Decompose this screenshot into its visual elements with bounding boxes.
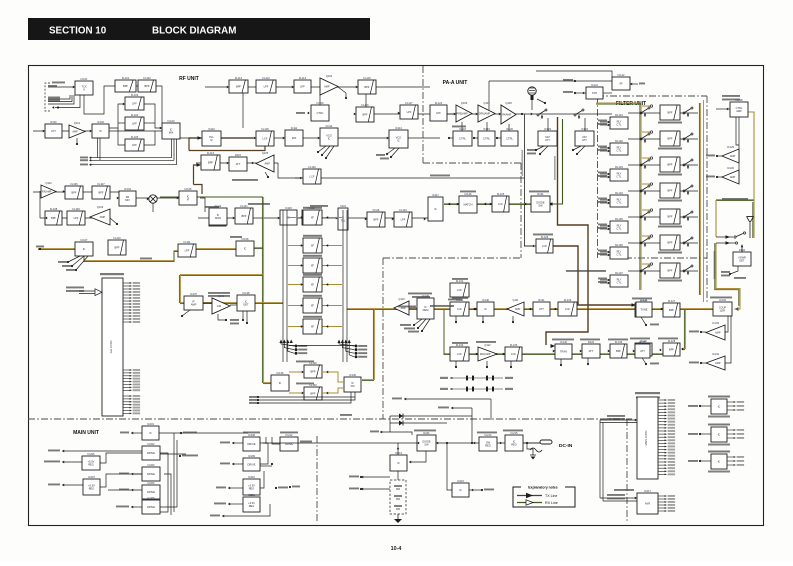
ific lbl2 bbox=[230, 323, 239, 325]
battery gnd bbox=[394, 514, 402, 523]
svg-text:BPF: BPF bbox=[364, 85, 369, 89]
RX vertical rail x263 bbox=[261, 197, 263, 383]
wire y138 row bbox=[180, 137, 440, 139]
battery feed bbox=[397, 471, 399, 480]
option in lbl 2 bbox=[688, 433, 698, 435]
filter row switch left 3 bbox=[640, 159, 650, 169]
svg-text:LPF: LPF bbox=[185, 249, 190, 253]
filter row stub left 1 bbox=[642, 105, 650, 107]
wire pa vert 489 bbox=[488, 81, 490, 110]
wire pa ctrl risers 2 bbox=[486, 122, 488, 131]
wire pa ctrl risers bbox=[461, 122, 463, 131]
option in lbl 1 bbox=[688, 405, 698, 407]
xtal label 5 bbox=[303, 295, 322, 297]
std arrow bbox=[582, 92, 584, 95]
filter bpf label 5 bbox=[658, 226, 682, 228]
svg-text:IC136: IC136 bbox=[349, 373, 356, 377]
pa bias2 bbox=[473, 137, 475, 139]
mrw3 bbox=[228, 487, 243, 489]
wire label mid bbox=[140, 258, 152, 260]
legend rx arrow bbox=[526, 500, 533, 505]
svg-text:IC104: IC104 bbox=[124, 187, 131, 191]
rxdet w2 bbox=[701, 362, 706, 364]
fan lbl2 bbox=[62, 265, 71, 267]
filter bpf 2 bbox=[660, 131, 680, 146]
wire ref line 3 bbox=[48, 95, 72, 102]
fan lbl1 bbox=[58, 261, 67, 263]
b8 lbl bbox=[292, 486, 300, 488]
att row lbl bbox=[630, 338, 650, 340]
filter relay arrow 3 bbox=[608, 173, 610, 176]
control wires down2 bbox=[738, 117, 740, 176]
vcofan dot2 bbox=[321, 154, 323, 156]
if link 4 bbox=[322, 388, 344, 393]
svg-text:R110: R110 bbox=[50, 120, 57, 124]
svg-text:LCF: LCF bbox=[542, 244, 547, 248]
center arrow5 bbox=[398, 112, 400, 115]
pwr small ic bbox=[452, 479, 469, 497]
battery dashed box bbox=[390, 480, 406, 514]
xtal stub right 1 bbox=[322, 217, 342, 219]
TX brown arrow into TUNE bbox=[632, 303, 637, 307]
tx505 dot bbox=[510, 366, 512, 368]
main vert 174 bbox=[173, 433, 175, 512]
label REF_IN bbox=[48, 85, 57, 87]
bus left vertical 1 bbox=[97, 138, 99, 158]
main drive4 bbox=[142, 496, 160, 514]
second ic x236 bbox=[236, 237, 254, 256]
if label2 bbox=[296, 383, 314, 385]
pachain lbl2 bbox=[529, 191, 549, 193]
wire lpf stack feed 3 bbox=[118, 128, 125, 145]
rx att 533 bbox=[533, 298, 550, 316]
highway lbl3 bbox=[607, 494, 625, 496]
svg-text:IC135: IC135 bbox=[277, 371, 284, 375]
svg-text:FL125: FL125 bbox=[497, 192, 505, 196]
filter row wire 5 bbox=[628, 216, 698, 218]
vswr fan lbl2 bbox=[721, 275, 730, 277]
dc dot bbox=[526, 442, 528, 444]
filter relay ctrl 4 bbox=[610, 191, 628, 207]
ref arrow bbox=[73, 86, 75, 89]
switchrow arrow bbox=[531, 113, 533, 116]
rx chain lbl2 bbox=[452, 297, 468, 299]
tx478 stub bbox=[486, 361, 488, 367]
vat fan2 bbox=[540, 146, 548, 154]
J2 vert pair1 bbox=[599, 420, 601, 498]
svg-text:MIX: MIX bbox=[292, 136, 297, 140]
chain arrow 2 bbox=[90, 130, 92, 133]
pachain lbl bbox=[460, 191, 476, 193]
J2 vert pair2 bbox=[602, 423, 604, 502]
m5w bbox=[131, 473, 142, 475]
tx bpf FL21 bbox=[235, 204, 253, 224]
svg-text:IC115: IC115 bbox=[285, 206, 292, 210]
ific fans bbox=[242, 311, 244, 320]
main drive1 bbox=[142, 442, 160, 460]
vco2 fan lbl2 bbox=[380, 158, 389, 160]
ic fan 1 bbox=[68, 256, 80, 262]
main in wire bbox=[131, 432, 142, 434]
svg-text:REG: REG bbox=[249, 487, 255, 491]
main lft arr7 bbox=[131, 506, 133, 509]
rxc arrow2 bbox=[529, 308, 531, 311]
svg-text:Q107: Q107 bbox=[483, 101, 490, 105]
y419 lbl bbox=[340, 414, 352, 416]
RF/PA boundary vertical bbox=[422, 66, 424, 163]
xtal filter 6 bbox=[303, 319, 322, 334]
svg-text:FL102: FL102 bbox=[143, 76, 151, 80]
option label smudge 1 bbox=[708, 416, 730, 418]
pwr arrow2 bbox=[473, 442, 475, 445]
pll IC6 bbox=[209, 208, 226, 226]
svg-text:FL105: FL105 bbox=[131, 135, 139, 139]
bpf FL2 bbox=[138, 76, 156, 92]
dc gnd wire bbox=[527, 443, 533, 455]
svg-text:MIX: MIX bbox=[169, 131, 174, 135]
filter bpf label 4 bbox=[658, 200, 682, 202]
xtal stub right 4 bbox=[322, 284, 342, 286]
xtal arrow right 2 bbox=[326, 244, 328, 247]
svg-text:SECTION 10: SECTION 10 bbox=[49, 26, 107, 37]
pa bias3 bbox=[496, 137, 498, 139]
filter row stub left 3 bbox=[642, 157, 650, 159]
svg-text:J+E CONN: J+E CONN bbox=[109, 340, 113, 353]
olive control link bbox=[748, 112, 754, 117]
svg-text:REG: REG bbox=[249, 504, 255, 508]
svg-text:IC141: IC141 bbox=[641, 298, 648, 302]
brown bpf feed arrow bbox=[197, 163, 202, 167]
svg-text:R123: R123 bbox=[639, 340, 646, 344]
control wires down bbox=[736, 117, 739, 145]
RX line to branch bbox=[254, 246, 263, 248]
svg-text:BPF: BPF bbox=[373, 218, 378, 222]
pwr left vert x390 bbox=[389, 416, 391, 432]
pwr arrow y408 bbox=[451, 407, 453, 410]
xtal pin bundle left bbox=[279, 340, 307, 355]
svg-text:IC107: IC107 bbox=[81, 238, 88, 242]
ifb dot1 bbox=[257, 396, 259, 398]
fan dot1 bbox=[67, 261, 69, 263]
svg-text:MOD: MOD bbox=[215, 216, 221, 220]
svg-text:LPF: LPF bbox=[264, 85, 269, 89]
svg-text:IC: IC bbox=[397, 139, 400, 143]
tx lcf 450 bbox=[450, 343, 469, 361]
filter unit right boundary bbox=[706, 96, 708, 302]
antenna symbol bbox=[747, 217, 754, 223]
main right bus2 bbox=[160, 453, 168, 512]
pwr ic link bbox=[397, 443, 399, 455]
tune bpf bbox=[663, 299, 680, 317]
mr top link bbox=[272, 437, 280, 444]
xtal label 1 bbox=[303, 207, 322, 209]
avr feed bbox=[600, 497, 637, 499]
main in arrow bbox=[131, 432, 133, 435]
filter row switch right 6 bbox=[683, 237, 693, 247]
mr dot4 bbox=[275, 487, 277, 489]
svg-text:Q104: Q104 bbox=[326, 74, 333, 78]
bus left vertical 2 bbox=[99, 138, 101, 160]
xtal stub right 3 bbox=[322, 265, 342, 267]
vco2 IC13 bbox=[389, 126, 408, 148]
chain arrow 3 bbox=[123, 103, 125, 106]
antenna switch line 1 bbox=[716, 232, 746, 239]
vat1 bbox=[538, 127, 557, 146]
mr lb4 bbox=[214, 503, 226, 505]
ctrl arrow bbox=[307, 112, 309, 115]
svg-text:Explanatory notes: Explanatory notes bbox=[528, 485, 558, 489]
rxc arrow4 bbox=[475, 308, 477, 311]
svg-text:BPF: BPF bbox=[310, 370, 315, 374]
att stub bbox=[587, 358, 589, 364]
mr lb1 bbox=[220, 442, 230, 444]
main right bus1 bbox=[159, 432, 248, 434]
svg-text:FL103: FL103 bbox=[131, 93, 139, 97]
coupler lbl bbox=[710, 297, 732, 299]
tx lcf 536 bbox=[536, 235, 553, 253]
batt side arrow bbox=[361, 476, 363, 479]
filter relay ctrl 6 bbox=[610, 243, 628, 259]
pwr ic reg bbox=[505, 431, 523, 451]
svg-text:Q102: Q102 bbox=[45, 181, 52, 185]
svg-text:IC207: IC207 bbox=[88, 475, 95, 479]
tune arrow2 bbox=[659, 349, 661, 352]
filter right tan rail 2 bbox=[703, 100, 705, 302]
vat2dot1 bbox=[572, 149, 574, 151]
txc arrow1 bbox=[476, 353, 478, 356]
svg-text:BPF: BPF bbox=[667, 189, 672, 193]
svg-text:FL101: FL101 bbox=[122, 76, 130, 80]
det dot1 bbox=[716, 155, 718, 157]
filter bpf label 1 bbox=[658, 122, 682, 124]
vswr fan lbl3 bbox=[734, 277, 746, 279]
filter row switch left 7 bbox=[640, 265, 650, 275]
svg-text:AMP: AMP bbox=[736, 109, 742, 113]
svg-text:IC201: IC201 bbox=[147, 422, 154, 426]
svg-text:LPF: LPF bbox=[407, 110, 412, 114]
ifamp fans bbox=[182, 310, 190, 316]
filter relay arrow b 4 bbox=[608, 202, 610, 205]
svg-text:DRIVE: DRIVE bbox=[248, 442, 256, 446]
svg-text:BPF: BPF bbox=[667, 215, 672, 219]
xtal filter 2 bbox=[303, 238, 322, 253]
det lbl2 bbox=[706, 176, 715, 178]
svg-text:PA|AMP: PA|AMP bbox=[502, 114, 512, 117]
pll label bbox=[205, 206, 219, 208]
svg-text:IC114: IC114 bbox=[215, 204, 222, 208]
legend tx arrow bbox=[526, 493, 533, 498]
main lft arr5 bbox=[131, 473, 133, 476]
if ic low2 bbox=[344, 373, 361, 392]
xtal left rail2 bbox=[286, 210, 288, 362]
legend tx line bbox=[517, 495, 542, 497]
J2 feed line2 bbox=[600, 422, 637, 424]
tx arrow2 bbox=[278, 217, 280, 220]
pwr y432 lbl bbox=[370, 431, 379, 433]
svg-text:IC123: IC123 bbox=[544, 127, 551, 131]
pwr rail dot x472 bbox=[471, 442, 473, 444]
pwr small link bbox=[469, 489, 481, 491]
RF lower boundary horizontal bbox=[383, 257, 521, 259]
att lbl bbox=[580, 339, 600, 341]
svg-text:AMP: AMP bbox=[730, 155, 736, 158]
amp Q4 bbox=[320, 74, 338, 95]
svg-text:AMP: AMP bbox=[191, 303, 197, 307]
svg-text:BPF: BPF bbox=[144, 84, 149, 88]
svg-text:IC108: IC108 bbox=[242, 237, 249, 241]
preamp note bbox=[232, 179, 258, 181]
center arrow3 bbox=[356, 86, 358, 89]
dm d2 bbox=[417, 327, 419, 329]
mr in2 bbox=[232, 463, 234, 466]
svg-text:BPF: BPF bbox=[114, 246, 119, 250]
rx450 dot bbox=[455, 321, 457, 323]
svg-text:BPF: BPF bbox=[51, 216, 56, 220]
RX line lpf to ic bbox=[196, 247, 236, 249]
filter row wire 2 bbox=[628, 138, 698, 140]
pachain arrow1 bbox=[448, 203, 450, 206]
y163 arrow1 bbox=[227, 162, 229, 165]
pa bias1w bbox=[449, 137, 453, 139]
svg-text:IC209: IC209 bbox=[248, 454, 255, 458]
xtal pin bundle right bbox=[337, 340, 367, 359]
coupler box bbox=[713, 298, 732, 316]
q3 stub bbox=[110, 218, 117, 224]
ic fan 3 bbox=[76, 256, 88, 270]
rx477 stub bbox=[482, 316, 484, 322]
tran ic 555 bbox=[555, 340, 572, 359]
vcofan dot1 bbox=[317, 151, 319, 153]
if group link bbox=[203, 302, 212, 304]
svg-text:TX Line: TX Line bbox=[545, 494, 557, 498]
svg-text:IC: IC bbox=[83, 247, 86, 251]
filter relay arrow 5 bbox=[608, 225, 610, 228]
vatdot2 bbox=[539, 153, 541, 155]
divider IC2 bbox=[92, 120, 109, 138]
filter relay label 2 bbox=[598, 146, 607, 148]
J2 pins bbox=[658, 399, 675, 475]
mix IC11 bbox=[285, 126, 303, 146]
if bottom lines3 bbox=[258, 392, 351, 403]
demod fans2 bbox=[418, 319, 426, 328]
q5 dot bbox=[267, 176, 269, 178]
svg-text:BPF: BPF bbox=[71, 191, 76, 195]
brown pll rail y150 bbox=[189, 146, 265, 151]
tx arrow3 bbox=[336, 217, 338, 220]
main left out2 bbox=[62, 461, 82, 463]
svg-text:IC210: IC210 bbox=[248, 475, 255, 479]
svg-text:LPF: LPF bbox=[436, 111, 441, 115]
mlo arrow1 bbox=[62, 450, 64, 453]
stub arrow bbox=[52, 106, 54, 109]
option dot 2 bbox=[699, 433, 701, 435]
att dot bbox=[587, 363, 589, 365]
amp Q3 bbox=[90, 205, 110, 225]
svg-text:BPF: BPF bbox=[667, 137, 672, 141]
svg-text:FL121: FL121 bbox=[240, 204, 248, 208]
brown pll feed bbox=[189, 138, 201, 151]
filter relay arrow 2 bbox=[608, 147, 610, 150]
wire lcf169 in bbox=[295, 177, 303, 179]
filter relay feed b 4 bbox=[600, 202, 610, 204]
bus label 1 bbox=[80, 157, 88, 159]
rx tri 507 bbox=[507, 298, 524, 316]
svg-text:RL104: RL104 bbox=[615, 191, 623, 195]
xtal arrow right 4 bbox=[326, 283, 328, 286]
olive below switch to coupler bbox=[716, 243, 740, 306]
mr link bbox=[260, 443, 268, 464]
main lft arr6 bbox=[131, 489, 133, 492]
svg-text:FL110: FL110 bbox=[113, 236, 121, 240]
svg-text:IC116: IC116 bbox=[373, 208, 380, 212]
lpf FL3 bbox=[125, 93, 144, 110]
wire mid rx chain right bbox=[136, 197, 179, 199]
center arrow2 bbox=[292, 86, 294, 89]
xtal label 2 bbox=[303, 235, 322, 237]
tx arrow1 bbox=[233, 217, 235, 220]
batt sw2 bbox=[361, 488, 390, 490]
amp bias dot bbox=[76, 143, 78, 145]
svg-text:FL126: FL126 bbox=[541, 235, 549, 239]
svg-text:IC: IC bbox=[718, 433, 721, 437]
option ic 1 bbox=[711, 399, 727, 414]
xtal arrow left 6 bbox=[301, 325, 303, 328]
main r ic1 bbox=[243, 433, 260, 451]
mrw1 bbox=[232, 442, 243, 444]
if amp box bbox=[184, 292, 203, 310]
dashed input bracket bbox=[45, 83, 50, 111]
green diode sw feed bbox=[550, 119, 563, 204]
svg-text:IC117: IC117 bbox=[432, 193, 439, 197]
det lbl1 bbox=[706, 155, 715, 157]
rx mid line lbl bbox=[430, 305, 454, 307]
ifgrp lbl bbox=[208, 292, 230, 294]
y138 arrow1 bbox=[254, 137, 256, 140]
option ic 2 bbox=[711, 427, 727, 442]
bus arrow3 bbox=[89, 163, 91, 166]
mlo lbl3 bbox=[48, 484, 60, 486]
svg-text:TRAN: TRAN bbox=[560, 350, 567, 354]
lpf FL17 bbox=[400, 101, 418, 119]
svg-text:Q110: Q110 bbox=[398, 297, 405, 301]
filter row stub dot 2 bbox=[650, 131, 652, 133]
fan dot2 bbox=[71, 265, 73, 267]
filter row stub dot 5 bbox=[650, 209, 652, 211]
battery cells bbox=[394, 486, 402, 509]
pa bias2w bbox=[474, 137, 478, 139]
svg-text:MAIN CONN: MAIN CONN bbox=[644, 430, 648, 445]
pwr arrow line y432 bbox=[380, 432, 412, 435]
tx450 stub bbox=[455, 361, 457, 367]
wire std to af bbox=[603, 92, 612, 94]
ifb lbl2 bbox=[249, 399, 257, 401]
svg-text:AMP: AMP bbox=[715, 332, 721, 335]
filter relay label 6 bbox=[598, 250, 607, 252]
svg-text:FL120: FL120 bbox=[308, 165, 316, 169]
svg-text:RL103: RL103 bbox=[615, 165, 623, 169]
wire af top line bbox=[536, 71, 612, 77]
af in arrow bbox=[630, 83, 632, 86]
xtal arrow right 1 bbox=[326, 216, 328, 219]
filter relay arrow b 7 bbox=[608, 282, 610, 285]
svg-text:XF: XF bbox=[311, 304, 315, 308]
wire mixer lo bbox=[152, 203, 154, 212]
m7w bbox=[131, 506, 142, 508]
label 10MHZ REF bbox=[52, 82, 65, 84]
green diode sw arrow bbox=[548, 202, 553, 206]
af box bbox=[612, 73, 630, 90]
xtal filter 5 bbox=[303, 298, 322, 313]
